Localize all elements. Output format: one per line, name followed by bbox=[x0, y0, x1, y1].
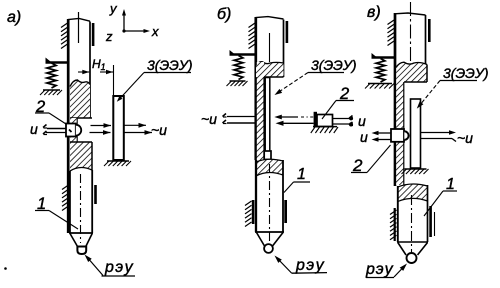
label 1 underline (fig b) bbox=[294, 181, 311, 183]
svg-text:~и: ~и bbox=[457, 130, 473, 146]
tool tip ball REU (fig v) bbox=[407, 253, 417, 263]
tool collar hatched (fig b) bbox=[256, 159, 283, 176]
spring bracket arm (fig v) bbox=[372, 56, 396, 58]
sensor 2 inner mark (fig a) bbox=[69, 130, 72, 133]
label 3(EEU) underline (fig a) bbox=[144, 72, 191, 74]
label 3(EEU) leader with arrow (fig b) bbox=[278, 73, 308, 93]
quill right wall (fig v) bbox=[425, 15, 427, 64]
label 1 leader (fig b) bbox=[284, 182, 294, 193]
input wire upper (fig a) bbox=[47, 128, 66, 130]
svg-text:3(ЭЭУ): 3(ЭЭУ) bbox=[443, 65, 489, 81]
thick guide bar right of tool (fig b) bbox=[284, 200, 287, 223]
tool left wall (fig b) bbox=[255, 160, 257, 232]
svg-text:и: и bbox=[358, 113, 366, 129]
spring ground (fig v) bbox=[368, 83, 392, 85]
label REU underline (fig b) bbox=[292, 272, 328, 275]
quill left wall (fig a) bbox=[67, 19, 70, 233]
svg-text:z: z bbox=[105, 29, 113, 44]
transducer block hatched (fig v) bbox=[396, 62, 427, 82]
H1 extension line (fig a) bbox=[113, 65, 115, 96]
sensor 2 ground hatching (fig b) bbox=[313, 126, 337, 128]
svg-text:а): а) bbox=[7, 9, 21, 26]
label 2 underline (fig b) bbox=[336, 100, 354, 102]
quill centerline dash-dot (fig v) bbox=[410, 2, 412, 68]
acoustic gap arrow upper (fig a) bbox=[91, 125, 112, 127]
label REU leader with arrow (fig v) bbox=[394, 266, 405, 278]
output wire upper with arrow (fig v) bbox=[421, 132, 450, 134]
tool tip ball REU (fig b) bbox=[264, 244, 273, 253]
spring bracket arm (fig b) bbox=[230, 53, 257, 55]
thick guide bar right of quill (fig a) bbox=[92, 23, 95, 46]
tool bottom edge (fig a) bbox=[69, 232, 93, 234]
tool centerline dash-dot (fig b) bbox=[269, 164, 271, 246]
label 2 leader (fig a) bbox=[49, 113, 66, 124]
svg-text:б): б) bbox=[217, 6, 231, 23]
coordinate axes origin dot bbox=[122, 29, 125, 32]
input wire upper with arrow (fig v) bbox=[377, 132, 391, 134]
label 2 underline (fig v) bbox=[351, 172, 367, 174]
gap arrow lower pointing left (fig b) bbox=[282, 122, 314, 124]
label REU underline (fig a) bbox=[102, 275, 136, 277]
plate bottom foot (fig b) bbox=[264, 151, 271, 160]
label 1 leader (fig v) bbox=[424, 191, 443, 216]
guide hatching left of quill (fig b) bbox=[249, 23, 256, 28]
tool bottom edge (fig v) bbox=[397, 241, 428, 243]
transducer upper block hatched (fig a) bbox=[70, 80, 90, 118]
label 1 underline (fig a) bbox=[35, 210, 49, 212]
gap arrow upper pointing left (fig b) bbox=[281, 116, 298, 118]
quill centerline (fig a) bbox=[78, 12, 80, 43]
label 2 underline (fig a) bbox=[35, 112, 49, 114]
coordinate axes: x axis with arrow bbox=[124, 30, 146, 32]
svg-text:в): в) bbox=[367, 4, 381, 21]
sensor 2 dome (fig a) bbox=[76, 125, 81, 136]
sensor output wire lower (fig b) bbox=[333, 123, 350, 125]
label REU leader with arrow (fig b) bbox=[277, 258, 292, 274]
spring bracket arm (fig a) bbox=[46, 61, 70, 63]
svg-text:х: х bbox=[151, 24, 159, 39]
svg-text:рэу: рэу bbox=[295, 257, 325, 274]
guide hatching left of tool (fig a) bbox=[62, 185, 69, 190]
transducer lower block hatched (fig a) bbox=[70, 142, 92, 171]
tool collar hatched (fig v) bbox=[398, 184, 428, 202]
quill right wall (fig a) bbox=[89, 22, 91, 119]
tool right wall (fig b) bbox=[282, 160, 284, 232]
tool cone (fig a) bbox=[70, 234, 78, 247]
bracket wedge (fig v) bbox=[372, 53, 379, 58]
stem right edge (fig v) bbox=[403, 82, 405, 185]
tool cone (fig b) bbox=[257, 233, 265, 247]
H1 dimension arrow right (fig a) bbox=[100, 71, 113, 73]
tool cone (fig v) bbox=[398, 243, 406, 256]
tool right wall (fig v) bbox=[427, 185, 429, 242]
plate 3 EEU hanging (fig b) bbox=[265, 78, 270, 152]
quill top edge (fig b) bbox=[256, 17, 284, 19]
guide hatching left of tool (fig b) bbox=[245, 201, 252, 206]
sensor 2 body (fig b) bbox=[317, 115, 333, 127]
plate 3 EEU (fig a) bbox=[113, 96, 124, 160]
tool tip REU (fig a) bbox=[77, 247, 86, 255]
label 3(EEU) leader with arrow (fig v) bbox=[420, 81, 441, 106]
bracket wedge (fig b) bbox=[230, 50, 237, 55]
spring (fig b) bbox=[234, 56, 243, 80]
transducer block hatched (fig b) bbox=[256, 62, 284, 77]
label 3(EEU) underline (fig v) bbox=[440, 80, 477, 82]
stray dot (fig a) bbox=[4, 267, 7, 270]
tool holder right wall (fig a) bbox=[91, 170, 93, 233]
label 3(EEU) underline (fig b) bbox=[308, 72, 344, 74]
label 3(EEU) leader with arrow (fig a) bbox=[119, 73, 144, 100]
spring (fig v) bbox=[376, 59, 385, 83]
quill centerline (fig b) bbox=[269, 33, 271, 62]
H1 dimension arrow left (fig a) bbox=[78, 71, 89, 73]
sensor output wire upper (fig b) bbox=[333, 118, 350, 120]
label REU underline (fig v) bbox=[366, 277, 394, 279]
sensor 2 dome (fig v) bbox=[404, 131, 408, 140]
svg-text:рэу: рэу bbox=[104, 259, 134, 276]
thick guide bar right of tool (fig v) bbox=[429, 206, 432, 237]
output plug symbol (fig b) bbox=[223, 114, 227, 117]
guide hatching left of tool (fig v) bbox=[390, 210, 397, 215]
label 1 underline (fig v) bbox=[443, 190, 457, 192]
coordinate axes: y axis with arrow bbox=[123, 12, 125, 31]
label REU leader with arrow (fig a) bbox=[87, 257, 104, 276]
nodal stem hatched (fig a) bbox=[70, 118, 77, 142]
thick guide bar right of quill (fig v) bbox=[428, 19, 431, 42]
spring ground (fig a) bbox=[43, 89, 60, 91]
tool holder left wall region (fig a) bbox=[69, 171, 71, 233]
output wire lower (fig b) bbox=[227, 122, 256, 124]
tool bottom edge (fig b) bbox=[255, 231, 284, 233]
plate ground (fig v) bbox=[405, 168, 427, 170]
spring ground (fig b) bbox=[230, 80, 246, 82]
spring (fig a) bbox=[47, 63, 56, 88]
thick guide bar right of tool (fig a) bbox=[94, 185, 97, 204]
output wire lower with arrow (fig a) bbox=[124, 132, 152, 134]
quill left wall (fig b) bbox=[254, 17, 257, 160]
input plug symbol (fig a) bbox=[43, 125, 47, 128]
svg-text:рэу: рэу bbox=[365, 261, 394, 278]
tool centerline dash-dot (fig a) bbox=[80, 174, 82, 243]
upper block step edge (fig a) bbox=[70, 117, 92, 119]
quill top edge (fig v) bbox=[395, 13, 426, 15]
stem right edge (fig a) bbox=[76, 118, 78, 142]
plate 3 EEU (fig v) bbox=[411, 99, 421, 168]
label 2 leader (fig v) bbox=[367, 145, 391, 173]
bracket wedge (fig a) bbox=[46, 58, 53, 63]
guide hatching left of quill (fig v) bbox=[388, 20, 395, 25]
sensor 2 body (fig v) bbox=[391, 129, 404, 142]
svg-text:и: и bbox=[360, 129, 368, 145]
tool left wall (fig v) bbox=[397, 186, 399, 242]
sensor 2 flange bar (fig b) bbox=[314, 112, 317, 128]
nodal stem hatched (fig b) bbox=[257, 62, 264, 164]
quill top edge (fig a) bbox=[68, 18, 90, 21]
svg-text:3(ЭЭУ): 3(ЭЭУ) bbox=[147, 57, 193, 73]
nodal stem hatched (fig v) bbox=[396, 82, 404, 185]
plate ground (fig a) bbox=[107, 160, 129, 162]
input wire lower with arrow (fig v) bbox=[377, 139, 391, 141]
output wire upper with arrow (fig a) bbox=[124, 124, 146, 126]
tool centerline dash-dot (fig v) bbox=[411, 195, 413, 253]
quill right wall (fig b) bbox=[283, 20, 285, 78]
output wire lower (fig v) bbox=[421, 138, 453, 140]
stem right edge (fig b) bbox=[263, 77, 265, 161]
input wire lower (fig a) bbox=[46, 132, 66, 134]
svg-text:~и: ~и bbox=[151, 122, 167, 138]
guide hatching left of quill (fig a) bbox=[61, 23, 68, 28]
input plug symbol (fig v) bbox=[349, 116, 353, 119]
svg-text:~и: ~и bbox=[201, 111, 217, 127]
thick guide bar right of quill (fig b) bbox=[286, 21, 289, 43]
svg-text:и: и bbox=[30, 121, 38, 137]
quill left wall (fig v) bbox=[394, 13, 397, 186]
svg-text:1: 1 bbox=[297, 166, 306, 183]
label 2 leader (fig b) bbox=[322, 101, 336, 120]
acoustic gap arrow lower (fig a) bbox=[90, 132, 111, 134]
label 1 leader (fig a) bbox=[49, 211, 78, 230]
sensor 2 body (fig a) bbox=[66, 124, 76, 137]
output wire upper (fig b) bbox=[227, 116, 256, 118]
svg-text:3(ЭЭУ): 3(ЭЭУ) bbox=[311, 57, 357, 73]
